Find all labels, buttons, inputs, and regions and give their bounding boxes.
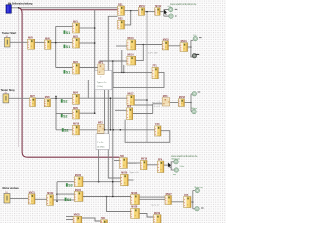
junction bbox=[55, 96, 57, 98]
wire MF3 to MV18 bbox=[170, 102, 179, 104]
flip-flop FF3 bbox=[155, 124, 161, 136]
junction bbox=[146, 99, 148, 101]
net label S3b bbox=[65, 198, 72, 202]
wire E3 out to MF1 bbox=[80, 67, 98, 69]
junction bbox=[94, 112, 96, 114]
svg-text:S3: S3 bbox=[67, 198, 71, 202]
wire rail x147 bbox=[146, 12, 148, 143]
monoflop MV22 bbox=[47, 193, 54, 205]
wire MV17 out bbox=[135, 99, 148, 101]
junction battery bus bbox=[18, 7, 20, 9]
junction bbox=[98, 181, 100, 183]
switch S2 Taster Stop bbox=[3, 94, 9, 103]
net label S2b bbox=[61, 114, 68, 118]
wire MV15 to MV16 bbox=[169, 45, 181, 47]
wire into FF2 bbox=[115, 109, 127, 111]
wire FF3 feedback loop bbox=[125, 120, 170, 143]
wire E1 out bbox=[80, 27, 95, 29]
gate MV1 bbox=[73, 21, 80, 33]
wire LED branch vertical bbox=[163, 10, 165, 17]
junction bbox=[112, 60, 114, 62]
wire rail x113 bbox=[112, 61, 114, 197]
gate MV17 bbox=[127, 93, 135, 105]
wire branch x122 bbox=[121, 50, 123, 72]
wire stub LED10 bbox=[193, 208, 195, 210]
wire stub LED9 bbox=[193, 190, 195, 192]
LED L5 bbox=[192, 92, 196, 96]
wire MV8 to E4 in bbox=[51, 97, 73, 99]
gate MV9 bbox=[73, 108, 80, 119]
wire FF4 out bbox=[164, 164, 170, 166]
wire MV18 out bbox=[185, 102, 192, 104]
timer MF2 bbox=[97, 123, 104, 134]
LED L3 bbox=[193, 36, 197, 40]
junction bbox=[106, 196, 108, 198]
svg-text:www.elektronik-labor.de: www.elektronik-labor.de bbox=[170, 3, 197, 6]
net label S1c bbox=[64, 70, 71, 74]
wire RS1 to MV11 bbox=[125, 10, 139, 12]
wire MV12 out bbox=[160, 11, 164, 13]
gate MV26 bbox=[131, 193, 140, 205]
junction bbox=[55, 98, 57, 100]
junction bbox=[190, 102, 192, 104]
wire E2 out bbox=[80, 42, 95, 44]
dash L2 bbox=[175, 15, 177, 18]
gate MV10 bbox=[73, 124, 80, 135]
wire to LED7 bbox=[171, 161, 174, 163]
wire to LED1 bbox=[164, 9, 169, 11]
wire MV19 to FF4 bbox=[147, 164, 157, 166]
wire stub MV25 b bbox=[66, 219, 73, 221]
wire rail x108 bbox=[108, 16, 120, 178]
wire MV14 out up bbox=[136, 45, 144, 61]
gate MV16 bbox=[180, 41, 188, 52]
wire to speaker bbox=[191, 47, 192, 57]
wire gray vertical beside loop bbox=[18, 8, 20, 147]
gate MV23 bbox=[74, 175, 83, 187]
wire S2 to MV7 bbox=[9, 97, 30, 99]
switch S1 Taster Start bbox=[5, 38, 11, 48]
junction bbox=[121, 72, 123, 74]
svg-text:150: 150 bbox=[193, 35, 196, 37]
wire stub P1 in bbox=[114, 160, 120, 162]
flip-flop FF4 bbox=[157, 158, 164, 172]
wire MV24 out to MV26 bbox=[83, 196, 131, 198]
LED L8 bbox=[174, 168, 178, 172]
wire MV25 out to 500b bbox=[82, 218, 101, 221]
LED L2 bbox=[169, 14, 173, 18]
dash L5 bbox=[198, 91, 201, 94]
wire MF2 out to FF3 bbox=[104, 129, 155, 131]
LED L6 bbox=[192, 109, 196, 113]
wire rail x56 upper bbox=[55, 26, 57, 67]
wire MV20 out stub bbox=[128, 179, 133, 181]
wire branch x124 bbox=[123, 65, 125, 72]
svg-text:S2: S2 bbox=[64, 129, 68, 133]
junction bbox=[192, 201, 194, 203]
monoflop MV21 bbox=[28, 192, 35, 204]
wire MV27 to FF5 bbox=[172, 201, 184, 203]
monoflop MV7 bbox=[30, 96, 36, 107]
wire rail to E6 in bbox=[56, 129, 73, 131]
wire P1 to MV19 bbox=[127, 162, 140, 164]
wire rail x57 bottom bbox=[56, 182, 58, 201]
gate MV29 bbox=[153, 213, 161, 223]
annotation box Tges bbox=[95, 71, 112, 90]
timer MF1 bbox=[98, 62, 104, 74]
wire rail to E2 in bbox=[56, 42, 73, 44]
net label S1a bbox=[64, 30, 71, 34]
wire rail to E3 in bbox=[56, 67, 73, 69]
wire FF2 out b bbox=[133, 113, 153, 115]
junction bbox=[112, 129, 114, 131]
wire rail to E1 in bbox=[56, 25, 73, 27]
svg-text:(0.5Hz): (0.5Hz) bbox=[97, 146, 104, 148]
junction bbox=[123, 72, 125, 74]
net label S2c bbox=[62, 128, 69, 132]
dash L4 bbox=[195, 54, 199, 55]
svg-text:S1: S1 bbox=[66, 31, 70, 35]
wire FF2 out a bbox=[133, 104, 153, 106]
wire FF1 feedback loop bbox=[113, 72, 164, 87]
wire MV16 out bbox=[188, 46, 191, 48]
net label S2a bbox=[61, 99, 68, 103]
wire MV7 to MV8 bbox=[36, 97, 45, 99]
wire to LED2 bbox=[164, 15, 169, 17]
gate MV25 bbox=[73, 215, 82, 223]
monoflop MV5 bbox=[28, 38, 35, 50]
wire rail x98 from box bbox=[98, 150, 100, 182]
gate MV2 bbox=[73, 36, 80, 48]
dash L10 bbox=[201, 207, 204, 210]
junction bbox=[169, 164, 171, 166]
flip-flop FF1 bbox=[152, 66, 158, 79]
LED L1 bbox=[169, 7, 173, 11]
dash L1 bbox=[175, 8, 178, 11]
LED L7 bbox=[174, 160, 178, 164]
wire vertical x153 bbox=[152, 104, 154, 114]
wire E5 out bbox=[80, 112, 95, 114]
background grid bbox=[0, 0, 226, 223]
timer MF3 bbox=[162, 96, 170, 106]
net label S3a bbox=[66, 183, 73, 187]
timer 500 bbox=[120, 156, 128, 168]
flip-flop RS2 bbox=[118, 19, 125, 29]
junction bbox=[94, 42, 96, 44]
wire to MF3 in bbox=[153, 103, 163, 105]
svg-text:www.elektronik-labor.de: www.elektronik-labor.de bbox=[171, 155, 198, 158]
svg-text:1 Hz: 1 Hz bbox=[180, 166, 184, 168]
wire E6 out to MF2 bbox=[80, 129, 98, 131]
LED L9 bbox=[195, 188, 199, 192]
svg-text:S3: S3 bbox=[68, 184, 72, 188]
gate MV18 bbox=[178, 97, 185, 106]
gate MV20 bbox=[121, 173, 129, 186]
svg-text:S1: S1 bbox=[66, 71, 70, 75]
svg-text:S2: S2 bbox=[63, 114, 67, 118]
svg-text:aus: aus bbox=[173, 174, 176, 176]
gate MV15 bbox=[162, 39, 169, 50]
wire to LED3 bbox=[191, 40, 193, 47]
wire rail x104 bbox=[104, 90, 106, 130]
wire E4 out to MV17 bbox=[80, 97, 127, 99]
wire maroon net highlight loop bbox=[19, 8, 120, 157]
wire battery plus bus bbox=[11, 7, 117, 9]
wire MV23 out to MV20 bbox=[83, 181, 121, 183]
junction bbox=[130, 10, 132, 12]
dash L3 bbox=[199, 36, 202, 39]
gate MV13 bbox=[127, 38, 136, 50]
net label S1b bbox=[64, 45, 71, 49]
wire rail x95 bbox=[94, 10, 96, 113]
svg-text:S2: S2 bbox=[63, 100, 67, 104]
gate MV28 bbox=[131, 207, 140, 219]
svg-text:S1: S1 bbox=[66, 45, 70, 49]
wire stub MV25 a bbox=[66, 216, 73, 218]
LED L10 bbox=[195, 207, 199, 211]
junction bbox=[143, 44, 145, 46]
wire S3 to MV21 bbox=[10, 198, 28, 200]
wire MV6 to rail bbox=[51, 42, 56, 44]
wire MV13 to MV15 bbox=[136, 44, 163, 46]
junction bbox=[110, 129, 112, 131]
wire to MV14 in bbox=[99, 60, 127, 62]
gate MV12 bbox=[155, 6, 162, 15]
gate MV27 bbox=[165, 194, 172, 205]
svg-text:Tges = 2s: Tges = 2s bbox=[129, 172, 138, 174]
gate MV4 bbox=[73, 92, 80, 105]
wire FF5 out bbox=[191, 201, 193, 203]
wire stub LED5 bbox=[191, 93, 192, 95]
monoflop MV8 bbox=[44, 97, 50, 107]
timer 500b bbox=[101, 218, 108, 223]
wire MV26 to MV27 b bbox=[140, 198, 166, 200]
wire MF1 box down bbox=[87, 80, 89, 98]
junction bbox=[120, 129, 122, 131]
wire VCC maroon bus bbox=[21, 9, 118, 11]
svg-text:(1 Hz): (1 Hz) bbox=[97, 86, 103, 88]
wire MV26 to MV27 a bbox=[140, 196, 166, 198]
monoflop MV6 bbox=[45, 38, 52, 49]
wire rail to E5 in bbox=[56, 112, 73, 114]
wire into FF1 bbox=[113, 71, 152, 73]
LED L4 off (dark) bbox=[192, 54, 196, 58]
junction bbox=[56, 200, 58, 202]
junction bbox=[190, 46, 192, 48]
cursor marker bottom bbox=[168, 162, 172, 168]
svg-text:2: 2 bbox=[100, 77, 101, 79]
battery B1 bbox=[6, 5, 11, 13]
wire to MV24 in bbox=[57, 193, 74, 195]
wire FF4 branch bbox=[170, 164, 171, 166]
gate MV3 bbox=[73, 62, 80, 74]
gate MV11 bbox=[138, 6, 145, 15]
wire LED branch bottom right bbox=[192, 191, 194, 209]
wire RS2 out up bbox=[125, 11, 131, 25]
wire MV28 to MV29 bbox=[140, 214, 154, 218]
wire MV22 out bbox=[54, 199, 75, 201]
junction bbox=[104, 129, 106, 131]
wire rail x106 to MV28 bbox=[107, 197, 131, 212]
flip-flop FF2 bbox=[127, 106, 133, 120]
wire stub LED6 bbox=[191, 110, 192, 112]
wire into MV13 bbox=[116, 45, 127, 47]
wire MV21 to MV22 bbox=[35, 198, 47, 200]
junction bbox=[55, 42, 57, 44]
switch S3 Motor bbox=[4, 194, 10, 204]
svg-text:T = 2s: T = 2s bbox=[97, 142, 104, 144]
flip-flop RS1 bbox=[118, 4, 125, 15]
flip-flop FF5 bbox=[184, 195, 191, 208]
gate MV14 bbox=[127, 54, 136, 66]
svg-text:Motor ein/aus: Motor ein/aus bbox=[3, 187, 20, 190]
wire to MV23 in bbox=[57, 181, 74, 183]
wire to LED8 bbox=[171, 169, 174, 171]
junction bbox=[110, 97, 112, 99]
svg-text:4 x 0.5: 4 x 0.5 bbox=[154, 106, 161, 108]
wire MV11 to MV12 bbox=[145, 11, 155, 13]
junction bbox=[56, 193, 58, 195]
junction bbox=[94, 27, 96, 29]
junction bbox=[112, 181, 114, 183]
wire rail x110 bbox=[109, 98, 111, 130]
wire rail x56 lower bbox=[55, 96, 57, 129]
gate MV19 bbox=[140, 159, 147, 170]
junction bbox=[146, 11, 148, 13]
wire LED branch blink bbox=[170, 162, 172, 170]
junction bbox=[112, 196, 114, 198]
wire S1 to MV5 bbox=[10, 41, 28, 43]
annotation box Tfreq bbox=[96, 134, 109, 150]
mouse cursor top bbox=[164, 9, 168, 15]
svg-text:1uF / 16V: 1uF / 16V bbox=[148, 53, 158, 55]
svg-text:Tges = 1s: Tges = 1s bbox=[97, 82, 108, 84]
wire LED branch right bbox=[190, 94, 192, 111]
wire MV5 to MV6 bbox=[35, 41, 45, 43]
gate MV24 bbox=[74, 189, 83, 202]
